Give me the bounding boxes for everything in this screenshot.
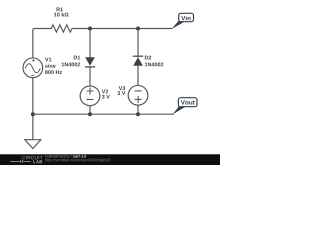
footer url line xyxy=(45,158,110,162)
flag Vin tail xyxy=(171,21,183,29)
label V1 name xyxy=(45,58,51,62)
label V3 name xyxy=(119,86,125,90)
V1 plus sign xyxy=(32,59,34,61)
V1 sine wave xyxy=(25,64,40,73)
diode D2 cathode bar xyxy=(133,55,143,57)
label R1 name xyxy=(56,7,62,11)
flag Vout tail xyxy=(173,106,185,115)
flag Vin label xyxy=(181,16,190,21)
wire D1 cathode to V2 xyxy=(89,67,91,86)
footer credit project name xyxy=(73,155,86,158)
label R1 value xyxy=(54,12,68,16)
label V1 frequency xyxy=(45,70,62,74)
wire D1 anode xyxy=(89,29,91,58)
resistor R1 xyxy=(51,25,72,32)
label D1 name xyxy=(74,56,80,60)
wire V3 to bottom rail xyxy=(137,105,139,114)
wire ground stem xyxy=(32,114,34,139)
wire V2 to bottom rail xyxy=(89,106,91,115)
diode D2 triangle xyxy=(133,57,143,66)
flag Vout box xyxy=(178,98,197,107)
label V1 type xyxy=(45,64,56,68)
diode D1 triangle xyxy=(85,57,95,66)
flag Vin box xyxy=(179,13,194,21)
voltage source V2 circle xyxy=(80,86,100,106)
wire D2 cathode top xyxy=(137,29,139,58)
footer logo CIRCUIT xyxy=(22,156,42,159)
V3 plus sign xyxy=(135,96,142,103)
ground symbol xyxy=(25,140,41,149)
label D1 part xyxy=(62,62,81,66)
footer logo capacitor lines xyxy=(11,160,31,163)
label D2 name xyxy=(145,56,151,60)
junction dot bottom middle xyxy=(88,112,92,116)
wire bottom rail xyxy=(33,113,174,115)
V1 minus sign xyxy=(31,74,34,76)
footer logo LAB xyxy=(33,160,42,163)
wire top rail right segment xyxy=(72,28,172,30)
footer bar xyxy=(0,154,220,165)
junction dot bottom right xyxy=(136,112,140,116)
wire top rail left segment with corner xyxy=(33,29,51,59)
diode D1 cathode bar xyxy=(85,66,95,68)
voltage source V3 circle xyxy=(128,85,148,105)
V2 minus sign xyxy=(87,99,94,101)
junction dot bottom left xyxy=(31,112,35,116)
label V2 value xyxy=(102,95,110,99)
label V3 value xyxy=(117,91,125,95)
V2 plus sign xyxy=(87,88,94,95)
wire left rail lower xyxy=(32,78,34,115)
footer credit line xyxy=(45,155,71,158)
wire D2 anode to V3 xyxy=(137,66,139,86)
label D2 part xyxy=(145,62,164,66)
label V2 name xyxy=(102,89,108,93)
junction dot top middle xyxy=(88,27,92,31)
V3 minus sign xyxy=(135,90,142,92)
voltage source V1 circle xyxy=(23,58,43,78)
junction dot top right xyxy=(136,27,140,31)
flag Vout label xyxy=(181,100,195,104)
